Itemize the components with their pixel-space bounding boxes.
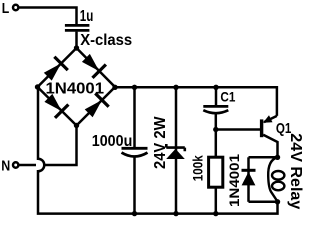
node bottom zener — [173, 211, 178, 216]
diode D2 top-right (top vertex to right vertex) — [79, 51, 106, 78]
svg-text:1N4001: 1N4001 — [46, 81, 105, 98]
wire L feed — [19, 8, 76, 25]
svg-text:N: N — [1, 158, 10, 175]
node bridge left — [35, 84, 40, 89]
terminal L — [13, 5, 18, 10]
svg-text:C1: C1 — [220, 90, 235, 105]
svg-text:24V Relay: 24V Relay — [287, 133, 304, 209]
node relay bottom — [275, 199, 280, 204]
wire C1 top lead — [215, 87, 218, 105]
terminal N — [13, 162, 18, 167]
diode D4 bottom-right (bottom vertex to right vertex) — [82, 93, 109, 120]
wire resistor bottom lead — [215, 187, 218, 214]
wire zener branch — [175, 87, 178, 213]
svg-text:100k: 100k — [190, 155, 205, 181]
svg-text:L: L — [2, 0, 10, 17]
relay coil — [268, 157, 284, 201]
Q1 emitter arrow — [263, 115, 273, 123]
capacitor 1000u — [122, 148, 148, 156]
node bridge bottom — [74, 123, 79, 128]
svg-text:24V 2W: 24V 2W — [152, 116, 169, 169]
capacitor 1u plates — [65, 25, 90, 30]
wire 1000u bottom lead — [133, 157, 136, 214]
wire C1 to resistor lead — [215, 112, 218, 157]
node rail zener — [173, 85, 178, 90]
diode D1 top-left (left vertex to top vertex) — [41, 57, 68, 84]
svg-text:1N4001: 1N4001 — [226, 154, 242, 207]
node bottom 1000u — [132, 211, 137, 216]
wire N right segment to bridge bottom — [45, 126, 76, 166]
wire relay bottom horizontal — [249, 201, 278, 204]
wire freewheel diode branch — [247, 157, 250, 202]
zener diode 24V 2W — [166, 144, 185, 159]
wire relay top horizontal — [249, 156, 278, 159]
transistor Q1 — [262, 115, 278, 157]
Q1 bar — [260, 119, 263, 137]
Q1 collector wire — [263, 135, 277, 158]
freewheel diode 1N4001 symbol — [242, 170, 256, 185]
wire bridge top lead — [75, 32, 78, 48]
node rail C1 — [213, 85, 218, 90]
Q1 emitter wire — [264, 116, 277, 122]
node bridge right — [112, 85, 117, 90]
node relay top — [275, 155, 280, 160]
svg-text:X-class: X-class — [80, 32, 132, 49]
node bottom resistor — [213, 211, 218, 216]
node rail 1000u — [132, 85, 137, 90]
diode D3 bottom-left (left vertex to bottom vertex) — [42, 91, 69, 118]
resistor 100k body — [209, 157, 223, 187]
node base junction — [213, 127, 218, 132]
bridge rectifier diamond wires — [38, 48, 116, 126]
wire top rail — [115, 87, 277, 116]
node bridge top — [74, 45, 79, 50]
svg-text:1000u: 1000u — [92, 133, 133, 150]
wire Q1 base — [216, 128, 260, 131]
svg-text:1u: 1u — [80, 8, 94, 25]
capacitor C1 — [203, 106, 228, 113]
wire N left segment — [19, 164, 36, 167]
wire left drop with hop — [38, 87, 278, 214]
wire 1000u top lead — [133, 87, 136, 147]
